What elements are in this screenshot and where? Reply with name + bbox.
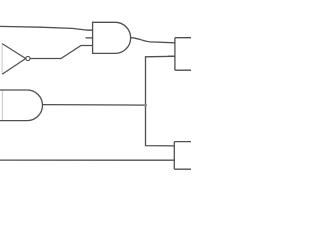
wire net D: trunk from U4 pin2 down to U5 pin1 [146,56,175,146]
inverter U1 [2,44,30,75]
wire net A: top-left input wire [0,26,93,30]
and-gate U2 (3-input) [86,22,131,53]
wire net E: U3 output to trunk [43,104,146,107]
and-gate U3 (middle-left, clipped 2-input) [0,90,42,121]
junction dot [144,104,147,107]
wire net C: U2 output to block U4 pin1 [131,38,175,43]
block U5 (bottom-right, clipped) [174,142,193,170]
wire net F: bottom input wire [0,159,174,161]
wire net B: inverter output to AND gate input [30,46,93,59]
block U4 (top-right, clipped) [168,38,193,70]
